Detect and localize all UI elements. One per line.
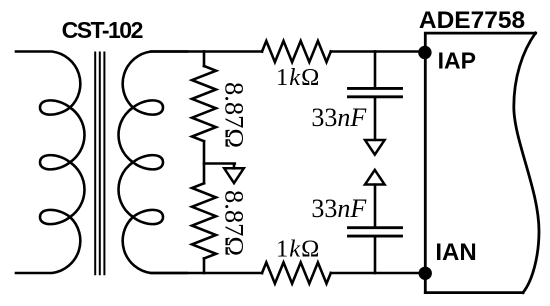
svg-text:33nF: 33nF bbox=[311, 194, 367, 223]
svg-text:ADE7758: ADE7758 bbox=[419, 7, 525, 34]
svg-text:IAP: IAP bbox=[438, 48, 476, 74]
svg-text:1kΩ: 1kΩ bbox=[276, 236, 320, 263]
svg-text:CST-102: CST-102 bbox=[62, 17, 143, 43]
svg-text:8.87Ω: 8.87Ω bbox=[219, 82, 249, 148]
svg-text:1kΩ: 1kΩ bbox=[276, 64, 320, 91]
svg-text:8.87Ω: 8.87Ω bbox=[219, 190, 249, 256]
svg-text:IAN: IAN bbox=[435, 239, 476, 266]
svg-text:33nF: 33nF bbox=[311, 103, 367, 132]
